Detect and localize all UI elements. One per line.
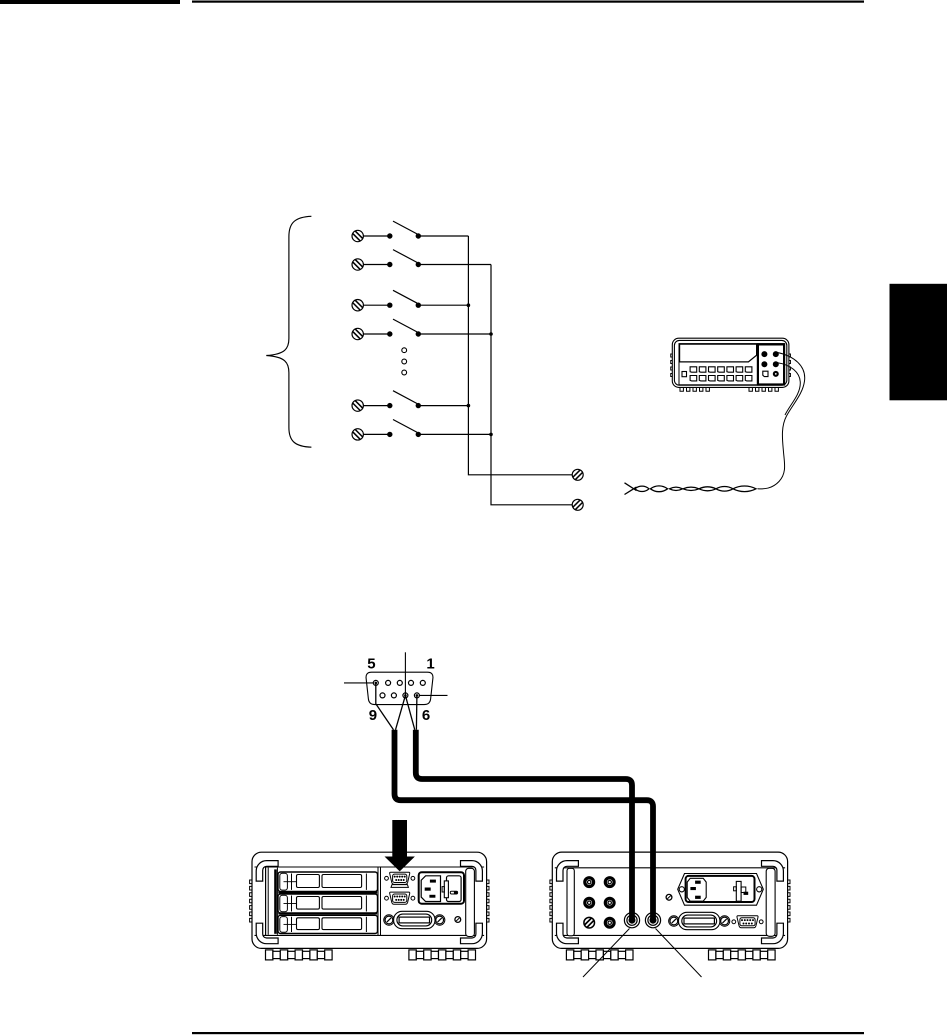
- left instrument GPIB connector: [384, 911, 445, 928]
- AC inlet right: [687, 878, 706, 901]
- brace (channel group): [266, 216, 311, 447]
- big down arrow: [385, 820, 415, 871]
- right instrument vents left: [550, 880, 552, 922]
- right instrument bracket top-right: [762, 861, 784, 882]
- junction row4/LO: [489, 332, 493, 336]
- channel terminal T1: [352, 230, 363, 241]
- svg-text:6: 6: [422, 707, 430, 724]
- cable A (to right jack): [395, 730, 654, 919]
- footer rule: [192, 1032, 864, 1034]
- AC inlet: [421, 876, 440, 902]
- left instrument feet left: [266, 950, 333, 960]
- wire center pin to cable A: [396, 695, 406, 729]
- right instrument case (DMM rear): [552, 852, 787, 948]
- chapter tab: [890, 284, 947, 401]
- switch S2: [387, 250, 421, 268]
- multimeter DMM outer case: [672, 338, 789, 387]
- left instrument RS-232 DB9 upper: [385, 872, 415, 884]
- switch S1: [387, 221, 421, 239]
- fuse holder right: [736, 881, 741, 901]
- chassis ground screw: [584, 917, 595, 928]
- channel terminal T4: [352, 328, 363, 339]
- left pointer line: [344, 682, 373, 684]
- left instrument right side column: [466, 868, 475, 936]
- left instrument bracket top-left: [256, 861, 278, 882]
- wire: [363, 304, 389, 306]
- header black bar: [0, 0, 180, 4]
- wire: [418, 433, 491, 435]
- left instrument vents left: [250, 880, 252, 922]
- wire: [363, 264, 389, 266]
- bus wire HI: [468, 236, 572, 475]
- svg-text:1: 1: [426, 656, 434, 673]
- DB9 upper flange: [391, 885, 408, 888]
- cable B (to left jack): [416, 730, 632, 919]
- right instrument bracket bottom-right: [762, 923, 784, 944]
- left instrument DB9 lower: [385, 892, 415, 904]
- left instrument bracket bottom-right: [461, 923, 483, 944]
- callout line right jack: [656, 929, 702, 978]
- channel terminal T6: [352, 429, 363, 440]
- DMM terminal block: [758, 344, 784, 384]
- left instrument bracket top-right: [461, 861, 483, 882]
- rear terminal current: [605, 918, 614, 927]
- junction row6/LO: [489, 433, 493, 437]
- left instrument feet right: [409, 950, 476, 960]
- output terminal HI: [572, 469, 583, 480]
- right instrument bracket top-left: [557, 861, 579, 882]
- plug-in module slot 2: [278, 894, 378, 913]
- wire: [418, 405, 468, 407]
- left instrument AC power entry: [419, 872, 464, 904]
- switch S4: [387, 319, 421, 337]
- rear terminal HI sense: [605, 878, 614, 887]
- wire pin5 to cable A: [376, 683, 394, 730]
- bus wire LO: [491, 265, 572, 505]
- right instrument left side column: [567, 868, 574, 936]
- junction row5/HI: [467, 404, 471, 408]
- right instrument panel lip lines: [555, 867, 785, 869]
- rear terminal HI: [585, 878, 594, 887]
- ext trigger jack: [645, 913, 660, 928]
- wire: [363, 433, 389, 435]
- channel terminal T3: [352, 300, 363, 311]
- right instrument feet right: [709, 950, 776, 960]
- rear terminal LO: [585, 898, 594, 907]
- wire center pin to cable B: [405, 695, 414, 729]
- svg-text:5: 5: [367, 656, 375, 673]
- right instrument right side column: [766, 868, 775, 936]
- wire: [418, 235, 468, 237]
- center pointer line: [404, 652, 406, 695]
- right instrument feet left: [566, 950, 633, 960]
- rear terminal LO sense: [605, 898, 614, 907]
- DMM feet: [680, 388, 778, 392]
- right instrument GPIB connector: [669, 912, 730, 929]
- left instrument panel lip lines: [255, 866, 485, 868]
- DMM side vents: [671, 354, 673, 377]
- DMM test lead wires: [758, 353, 805, 489]
- DMM faceplate: [679, 344, 784, 385]
- junction row3/HI: [467, 303, 471, 307]
- channel terminal T2: [352, 259, 363, 270]
- AC inlet prongs: [430, 880, 436, 883]
- switch S5: [387, 391, 421, 409]
- voltmeter complete jack: [624, 913, 639, 928]
- wire pin6 to cable B: [415, 695, 418, 729]
- twisted pair cable: [625, 483, 757, 495]
- right pointer line: [419, 694, 447, 696]
- DMM keys: [690, 367, 752, 381]
- output terminal LO: [572, 499, 583, 510]
- wire: [418, 264, 491, 266]
- wire: [363, 333, 389, 335]
- left instrument case (switch unit rear): [252, 852, 487, 948]
- pin row 1 (pins 1-5): [373, 680, 425, 685]
- callout line left jack: [583, 929, 630, 978]
- fuse holder door: [447, 876, 462, 902]
- DMM input jacks: [761, 351, 778, 377]
- fuse holder: [444, 881, 448, 898]
- pin row 2 (pins 6-9): [380, 693, 419, 698]
- left instrument ground screw: [455, 917, 461, 923]
- DMM fuse square: [763, 371, 768, 376]
- module area divider: [377, 867, 379, 935]
- wire: [363, 235, 389, 237]
- card cage rail: [267, 868, 269, 935]
- left instrument bracket bottom-left: [256, 923, 278, 944]
- header rule: [192, 1, 864, 3]
- DB9 connector body: [366, 672, 433, 704]
- small screw: [666, 894, 672, 900]
- DMM display: [680, 344, 757, 362]
- left instrument vents right: [487, 880, 489, 922]
- plug-in module slot 1: [278, 872, 378, 891]
- wire: [363, 405, 389, 407]
- channel terminal T5: [352, 400, 363, 411]
- wire: [418, 304, 468, 306]
- right instrument AC power entry: [678, 874, 764, 906]
- right instrument vents right: [788, 880, 790, 922]
- right instrument bracket bottom-left: [557, 923, 579, 944]
- solder dots on used pins: [375, 682, 378, 685]
- switch S6: [387, 420, 421, 438]
- switch S3: [387, 290, 421, 308]
- left instrument inner panel sides: [265, 867, 267, 935]
- plug-in module slot 3: [278, 915, 378, 933]
- ellipsis dots (more channels): [402, 348, 407, 375]
- DMM power button: [682, 372, 687, 377]
- wire: [418, 333, 491, 335]
- right instrument RS-232 DB9: [732, 916, 763, 928]
- svg-text:9: 9: [369, 707, 377, 724]
